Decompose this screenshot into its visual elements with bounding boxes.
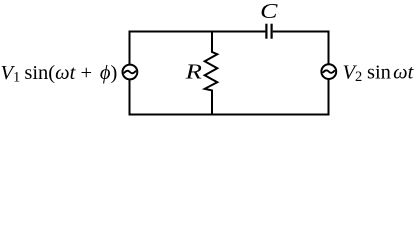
resistor R	[205, 32, 218, 115]
wire right	[328, 31, 330, 115]
capacitor C plate right	[271, 24, 273, 39]
svg-text:V1 sin(ωt + ϕ): V1 sin(ωt + ϕ)	[1, 62, 118, 86]
wire bottom	[129, 114, 330, 116]
AC source V1 circle	[122, 65, 137, 80]
capacitor C plate left	[265, 24, 267, 39]
wire left	[129, 31, 131, 115]
svg-text:R: R	[184, 59, 202, 83]
svg-text:V2 sinωt: V2 sinωt	[343, 61, 415, 85]
wire top-right segment	[273, 31, 329, 33]
AC source V2 circle	[321, 64, 336, 79]
wire top-left segment	[130, 31, 266, 33]
AC source V2 sine tilde	[323, 70, 334, 72]
svg-text:C: C	[260, 0, 278, 23]
AC source V1 sine tilde	[124, 71, 135, 73]
